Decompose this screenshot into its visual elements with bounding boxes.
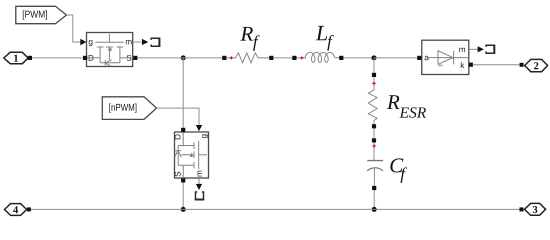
- wire Q2 source to bus: [182, 183, 184, 210]
- coil of Lf: [305, 52, 335, 62]
- terminator (open circuit) below Q2: [196, 192, 204, 200]
- terminator (open circuit) at D1 m: [486, 45, 494, 53]
- label Cf: [390, 158, 403, 172]
- arrowhead into Q1 gate: [80, 39, 86, 45]
- top plate of Cf: [367, 160, 383, 162]
- node junction B: [372, 55, 377, 60]
- resistor RESR: [368, 73, 426, 129]
- port number 2: [534, 62, 538, 69]
- junction on bus below Q2: [181, 207, 186, 212]
- from tag PWM: [16, 6, 67, 23]
- port number 3: [533, 206, 538, 213]
- wire node B down to RESR: [373, 58, 375, 73]
- bus wire port4 to junction: [31, 208, 183, 210]
- junction on bus below Cf: [372, 207, 377, 212]
- from tag nPWM: [102, 97, 156, 120]
- red polarity + of RESR: [372, 82, 375, 86]
- pin label g: [89, 40, 93, 46]
- red polarity + of Lf: [300, 56, 303, 59]
- terminator (open circuit) at Q1 m: [151, 38, 159, 46]
- wire Lf to node B: [343, 57, 374, 59]
- wire RESR to Cf: [373, 128, 375, 138]
- mosfet Q2: [175, 128, 209, 183]
- wire junction A to Q2 drain: [182, 58, 184, 128]
- pin label S: [127, 55, 132, 61]
- pin label g: [202, 134, 208, 138]
- pin label k: [461, 62, 465, 68]
- wire Q2 m to terminator: [198, 178, 200, 184]
- label Rf: [240, 27, 253, 41]
- bus wire junction to Cf junction: [183, 208, 374, 210]
- port number 4: [13, 206, 18, 213]
- arrowhead into Q2 gate: [196, 125, 202, 131]
- inductor Lf: [292, 26, 343, 63]
- wire PWM to Q1 gate: [67, 15, 81, 42]
- mosfet Q1: [83, 33, 137, 67]
- port 4: [5, 204, 31, 216]
- wire nPWM to Q2 gate: [157, 108, 199, 125]
- port number 1: [14, 55, 18, 62]
- pin label m: [126, 40, 132, 44]
- red polarity + of Rf: [230, 56, 233, 59]
- port 1: [4, 52, 32, 63]
- curved plate of Cf: [367, 168, 383, 171]
- port 2: [520, 59, 548, 71]
- pin label m: [459, 48, 465, 52]
- pin label m: [197, 171, 201, 177]
- node junction A: [181, 55, 186, 60]
- zigzag of Rf: [236, 53, 270, 63]
- wire Cf to bus: [373, 190, 375, 209]
- capacitor Cf: [367, 138, 407, 190]
- diode D1: [417, 40, 473, 74]
- wire node B to diode a: [374, 57, 417, 59]
- pin label a: [425, 56, 429, 60]
- wire Q1 m to terminator: [133, 41, 143, 43]
- pin label D: [175, 134, 181, 139]
- wire D1 k to port 2: [473, 64, 520, 66]
- wire Q1 source to junction A: [137, 57, 222, 59]
- pin label D: [89, 55, 94, 61]
- wire Rf to Lf: [273, 57, 292, 59]
- label RESR: [387, 95, 400, 109]
- wire D1 m to terminator: [469, 48, 477, 50]
- arrowhead at lower terminator: [196, 184, 202, 190]
- resistor Rf: [222, 27, 273, 63]
- zigzag of RESR: [368, 90, 377, 124]
- bus wire Cf junction to port 3: [374, 208, 519, 210]
- pin label S: [175, 172, 181, 177]
- arrowhead at D1 terminator: [478, 46, 484, 52]
- label Lf: [316, 26, 327, 40]
- arrowhead at terminator: [142, 39, 148, 45]
- wire port1 to Q1 drain: [32, 57, 83, 59]
- red polarity + of Cf: [372, 144, 375, 148]
- port 3: [520, 203, 546, 215]
